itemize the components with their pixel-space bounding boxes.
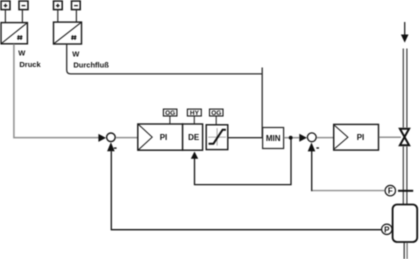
svg-text:F: F [388,187,393,196]
wire: OG stem 2 [215,116,217,125]
label W Durchfluss [72,50,109,70]
svg-text:W: W [72,50,80,59]
controller block PI2 [334,124,379,150]
svg-text:Durchfluß: Durchfluß [73,61,109,70]
wire: limiter to MIN (black) [228,137,263,139]
flow sensor F [385,185,395,195]
parameter label OG (limiter) [210,109,224,117]
svg-text:PI: PI [357,133,365,142]
wire: F sensor line (gray) [312,190,385,192]
parameter label HY (DE) [187,109,201,117]
dead band block DE [183,124,203,150]
wire: P feedback to junction 1 (black) [111,151,381,230]
wire: W Durchfluss setpoint across top to MIN (black, rounded corner) [67,44,263,74]
setpoint adjuster block W Druck [1,23,27,44]
setpoint decrease button S2- [72,1,81,10]
pressure sensor P [382,224,392,234]
pipe below vessel (double line) [403,243,405,259]
vessel [393,205,418,243]
wire: S1- stem [21,10,23,23]
svg-text:OG: OG [211,110,221,117]
control valve [400,129,409,145]
setpoint increase button S1+ [1,1,10,10]
wire: S2+ stem [57,10,59,22]
wire: HY stem [193,116,195,124]
minus sign at junction 1 [114,147,117,149]
wire: F feedback up to junction 2 (black) [311,151,313,191]
wire: MIN output to junction 2 (gray) [284,137,299,139]
input arrow into summing junction 2 [299,134,307,142]
wire: W Druck setpoint to summing junction 1 (gray) [14,44,99,138]
wire: S2- stem [75,10,77,22]
setpoint decrease button S1- [19,1,28,10]
svg-text:MIN: MIN [266,134,281,143]
limiter block [206,125,228,150]
summing junction 2 [307,133,316,142]
minus sign at junction 2 [316,147,319,149]
feedback up-arrow into junction 2 [308,143,316,152]
setpoint adjuster block W Durchfluss [54,22,82,44]
svg-text:HY: HY [190,110,200,117]
wire: MIN output feedback to DE (black) [195,139,292,185]
feedback up-arrow into DE block [191,152,198,159]
svg-text:PI: PI [160,133,168,142]
wire: junction 1 to PI controller (gray) [116,137,138,139]
wire: OG stem [169,116,171,124]
label W Druck [18,49,41,69]
flow measurement bar [398,190,413,192]
parameter label OG (PI1) [163,109,177,117]
pipe below valve (double line) [403,147,407,205]
flow direction arrow at pipe inlet [404,22,406,35]
wire: vertical drop into MIN top [261,68,263,139]
feedback up-arrow into junction 1 [107,142,115,151]
setpoint increase button S2+ [54,1,63,10]
svg-text:Druck: Druck [19,60,41,69]
pipe above valve (double line) [403,49,407,128]
summing junction 1 [107,133,116,142]
input arrow into summing junction 1 [98,134,106,142]
wire: PI2 to valve (gray) [379,136,401,138]
minimum selector block MIN [263,128,284,149]
wire: junction 2 to PI2 (gray) [317,137,334,139]
svg-text:DE: DE [188,133,200,142]
svg-text:W: W [18,49,26,58]
svg-text:OG: OG [165,110,175,117]
junction dot [289,136,293,140]
controller block PI1 [138,124,183,150]
svg-text:P: P [384,225,390,234]
wire: S1+ stem [4,10,6,23]
